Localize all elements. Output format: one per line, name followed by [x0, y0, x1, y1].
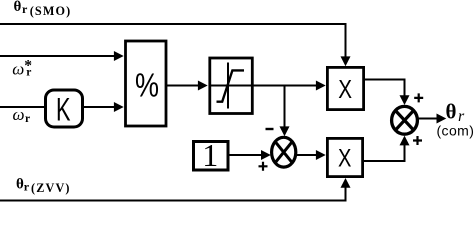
saturation x-axis: [209, 85, 254, 87]
wire omega_r into K block: [0, 106, 44, 108]
svg-text:ω: ω: [12, 60, 24, 79]
svg-text:r: r: [22, 2, 28, 16]
plus sign at S1 left input: [259, 162, 268, 171]
wire X1 to summing junction S2: [364, 79, 405, 97]
block K (gain): [46, 90, 83, 127]
svg-text:X: X: [338, 144, 352, 172]
plus sign at S2 bottom input: [413, 136, 422, 145]
wire S1 to multiplier X2: [297, 154, 316, 156]
wire saturation to multiplier X1: [254, 85, 317, 87]
saturation y-axis: [227, 63, 229, 109]
svg-text:r: r: [24, 180, 30, 194]
node theta_r(ZVV) label: [16, 176, 71, 195]
svg-text:K: K: [56, 91, 71, 127]
svg-text:θ: θ: [14, 0, 22, 15]
node omega_r label: [13, 105, 31, 125]
block % (divider): [126, 41, 167, 126]
svg-text:r: r: [26, 67, 31, 79]
summing junction S2: [392, 106, 418, 134]
node theta_r(com) label: [437, 99, 474, 138]
wire K to % block: [84, 106, 115, 108]
svg-text:r: r: [25, 113, 30, 125]
wire branch down to summing junction S1: [284, 86, 286, 128]
block saturation (limiter): [209, 58, 254, 114]
node omega_r* label: [12, 57, 32, 78]
wire theta_r(SMO) horizontal + down into multiplier X1: [0, 23, 346, 58]
minus sign at S1 top input: [266, 128, 274, 130]
plus sign at S2 top input: [414, 93, 423, 102]
wire S2 output to theta_r(com): [419, 118, 437, 120]
svg-text:θ: θ: [16, 176, 24, 192]
block constant 1: [194, 137, 229, 173]
saturation curve: [217, 70, 245, 101]
block multiplier X2: [327, 138, 362, 176]
node theta_r(SMO) label: [14, 0, 72, 18]
summing junction S1: [272, 137, 296, 167]
svg-text:%: %: [135, 66, 159, 103]
svg-text:X: X: [338, 76, 352, 104]
svg-text:(SMO): (SMO): [30, 4, 72, 18]
wire omega_r* into % block: [0, 55, 114, 57]
wire X2 to summing junction S2: [364, 144, 405, 162]
wire % to saturation block: [167, 85, 198, 87]
svg-text:θ: θ: [446, 99, 457, 123]
svg-text:(ZVV): (ZVV): [31, 181, 71, 195]
wire theta_r(ZVV) horizontal + up into multiplier X2: [0, 186, 346, 202]
svg-text:(com): (com): [437, 123, 474, 139]
block multiplier X1: [327, 67, 363, 109]
svg-text:1: 1: [202, 137, 218, 173]
wire constant 1 to summing junction S1: [229, 154, 262, 156]
